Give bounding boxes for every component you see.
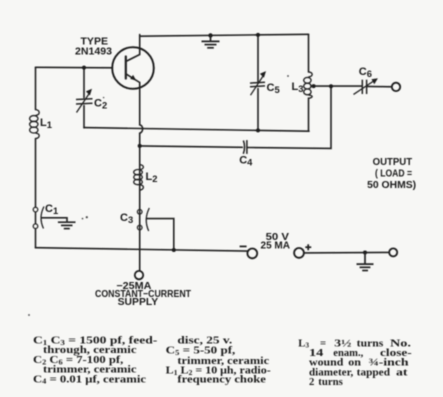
svg-text:at: at bbox=[396, 366, 408, 378]
svg-text:C6: C6 bbox=[359, 66, 372, 79]
svg-text:L3: L3 bbox=[292, 81, 304, 94]
svg-text:L3: L3 bbox=[298, 337, 309, 349]
svg-text:C4: C4 bbox=[239, 155, 253, 168]
svg-text:frequency choke: frequency choke bbox=[177, 373, 266, 385]
svg-text:tapped: tapped bbox=[357, 366, 390, 378]
svg-text:C3: C3 bbox=[120, 212, 133, 225]
svg-text:C5: C5 bbox=[267, 82, 280, 95]
svg-text:L2: L2 bbox=[146, 171, 158, 184]
svg-text:50 OHMS): 50 OHMS) bbox=[367, 180, 416, 191]
svg-text:2N1493: 2N1493 bbox=[75, 45, 112, 57]
svg-text:SUPPLY: SUPPLY bbox=[118, 297, 159, 308]
svg-text:C4 = 0.01 μf, ceramic: C4 = 0.01 μf, ceramic bbox=[33, 373, 146, 385]
svg-text:L1: L1 bbox=[40, 117, 52, 130]
svg-text:C2: C2 bbox=[94, 97, 107, 110]
svg-text:2: 2 bbox=[309, 376, 314, 388]
svg-text:turns: turns bbox=[318, 376, 343, 388]
svg-text:25 MA: 25 MA bbox=[261, 240, 291, 251]
svg-text:OUTPUT: OUTPUT bbox=[373, 157, 413, 168]
svg-text:C1: C1 bbox=[45, 203, 58, 216]
svg-text:( LOAD =: ( LOAD = bbox=[375, 168, 412, 179]
